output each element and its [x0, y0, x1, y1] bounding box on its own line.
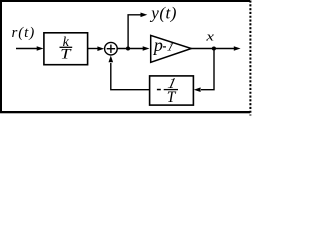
svg-text:p: p [152, 35, 163, 55]
svg-text:T: T [167, 89, 177, 106]
svg-text:y(t): y(t) [149, 4, 177, 23]
svg-text:r(t): r(t) [12, 25, 36, 41]
svg-text:x: x [205, 29, 214, 44]
